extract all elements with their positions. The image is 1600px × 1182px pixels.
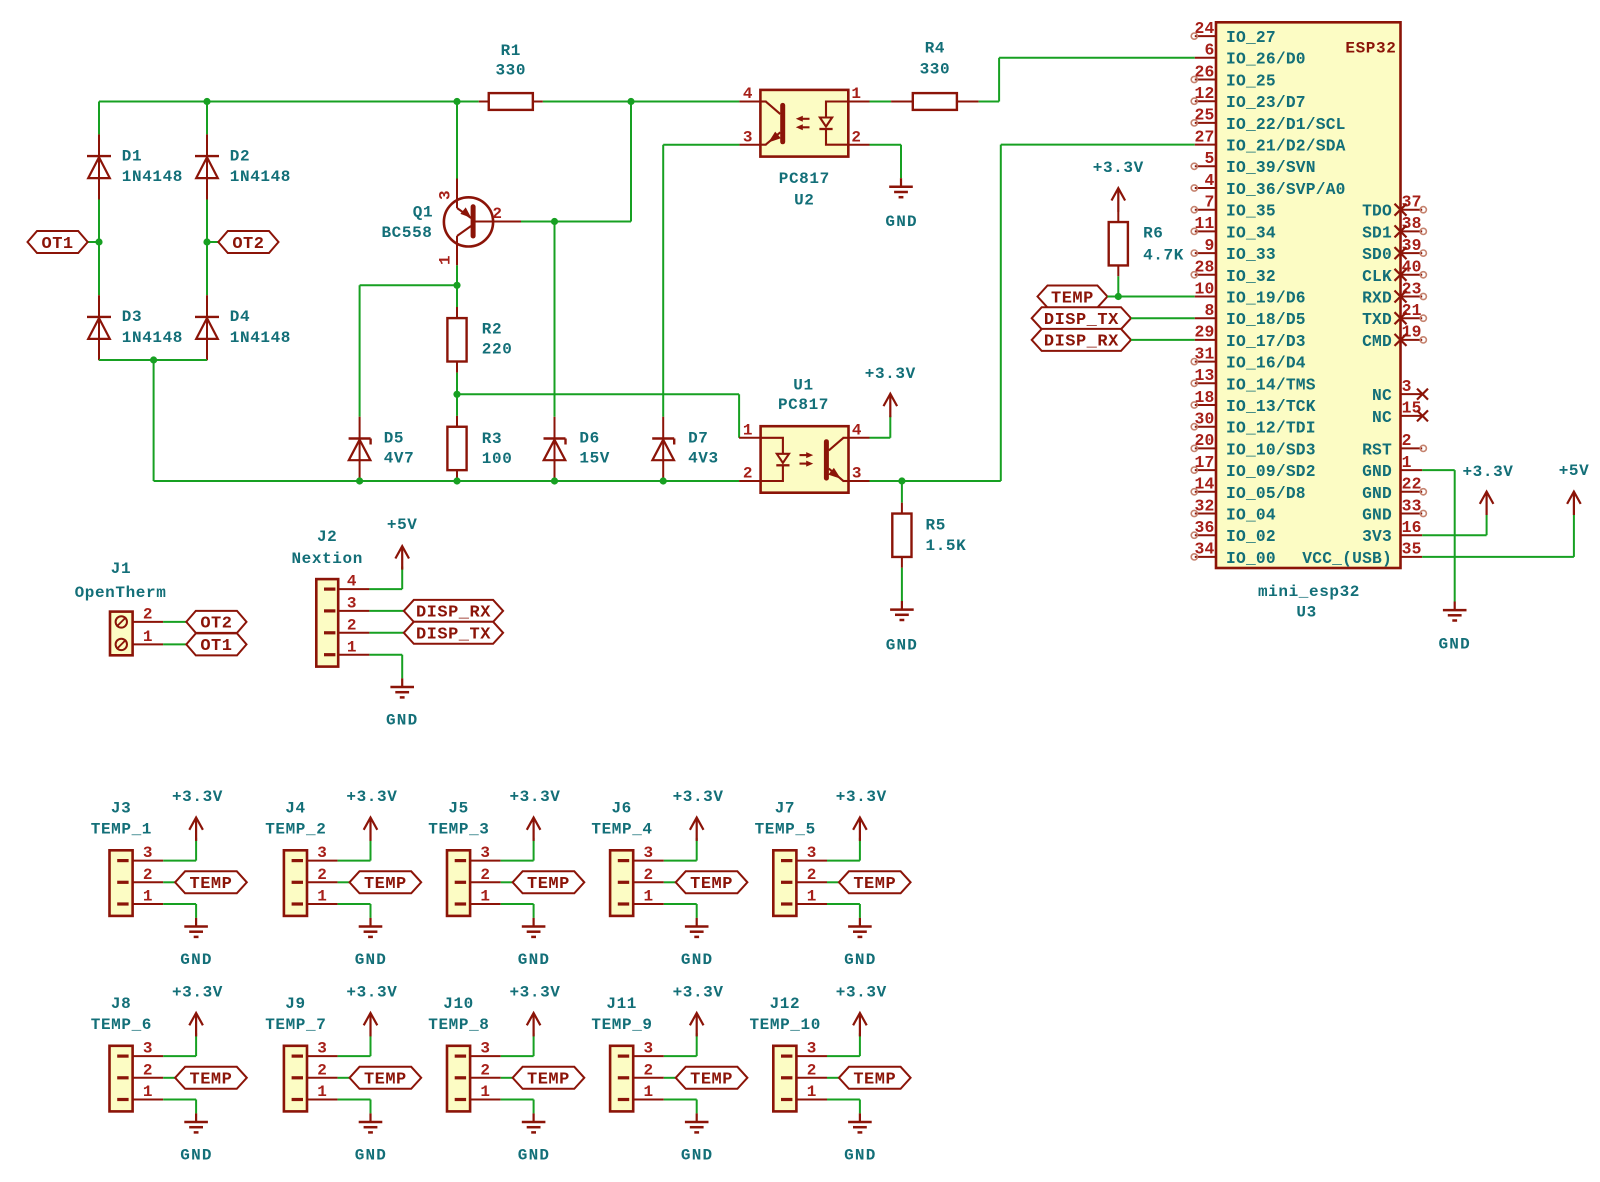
U2 internal light arrows (799, 118, 810, 120)
J8 pin contact 1 (117, 1098, 128, 1101)
svg-text:3: 3 (347, 595, 357, 613)
svg-text:2: 2 (143, 866, 153, 884)
pin 16 U3 3V3 (1401, 534, 1423, 536)
wire corner up to IO_26 row (998, 58, 1000, 102)
svg-text:TEMP_9: TEMP_9 (591, 1016, 652, 1034)
J11 pin contact 1 (618, 1098, 629, 1101)
svg-text:CMD: CMD (1362, 332, 1392, 351)
svg-text:IO_09/SD2: IO_09/SD2 (1226, 462, 1316, 481)
wire bridge bottom drop (153, 360, 155, 481)
svg-text:1: 1 (480, 1083, 490, 1101)
svg-text:TEMP_7: TEMP_7 (265, 1016, 326, 1034)
svg-text:SD0: SD0 (1362, 245, 1392, 264)
svg-text:1N4148: 1N4148 (230, 329, 291, 347)
svg-text:IO_33: IO_33 (1226, 245, 1276, 264)
svg-text:1: 1 (437, 255, 455, 265)
svg-text:TEMP: TEMP (190, 875, 233, 894)
pin 39 U3 SD0 (1401, 252, 1423, 254)
svg-text:2: 2 (807, 1061, 817, 1079)
power symbol +3.3V J4 (369, 818, 371, 841)
pin 10 U3 IO_19/D6 (1195, 296, 1216, 298)
pin 1 U2 (848, 101, 869, 103)
svg-text:DISP_RX: DISP_RX (1044, 333, 1119, 352)
svg-text:3: 3 (807, 1040, 817, 1058)
J6 pin contact 3 (618, 859, 629, 862)
svg-text:TEMP_8: TEMP_8 (428, 1016, 489, 1034)
power symbol +3.3V J3 (195, 818, 197, 841)
svg-text:+3.3V: +3.3V (509, 983, 560, 1001)
pin 1 J4 (307, 903, 338, 905)
svg-text:IO_04: IO_04 (1226, 505, 1276, 524)
svg-text:IO_25: IO_25 (1226, 71, 1276, 90)
svg-text:+3.3V: +3.3V (836, 983, 887, 1001)
J11 pin contact 2 (618, 1076, 629, 1079)
J12 pin contact 1 (781, 1098, 792, 1101)
ground symbol J3 GND (195, 918, 197, 927)
wire DISP_TX to ESP32 pin 8 (1131, 317, 1195, 319)
power symbol +3.3V U3 (1485, 492, 1487, 515)
svg-text:1: 1 (143, 888, 153, 906)
pin 3 J11 (633, 1055, 664, 1057)
wire D1-OT1-D3 column (98, 200, 100, 296)
wire J7 pin1 right (827, 903, 860, 905)
svg-text:D3: D3 (122, 308, 142, 326)
svg-text:1: 1 (807, 1083, 817, 1101)
pin 3 J6 (633, 860, 664, 862)
wire top net horizontal left (99, 101, 479, 103)
pin 32 U3 IO_04 (1195, 513, 1216, 515)
wire D2-OT2-D4 column (206, 200, 208, 296)
node junction OT1 (95, 238, 102, 245)
pin 1 J2 (338, 654, 369, 656)
J3 pin contact 3 (117, 859, 128, 862)
connector J3 body (110, 850, 133, 916)
wire J10 pin3 up (533, 1033, 535, 1056)
ground symbol J8 GND (195, 1113, 197, 1122)
svg-text:GND: GND (844, 1146, 876, 1164)
svg-text:2: 2 (317, 866, 327, 884)
wire J2 pin4 up to +5V (401, 567, 403, 590)
J12 pin contact 3 (781, 1055, 792, 1058)
pin 27 U3 IO_21/D2/SDA (1195, 144, 1216, 146)
wire J1 pin1 to OT1 (163, 643, 186, 645)
svg-text:4: 4 (347, 573, 357, 591)
wire corner up to IO_21 row (1000, 145, 1002, 481)
pin 23 U3 RXD (1401, 296, 1423, 298)
svg-text:+5V: +5V (387, 516, 418, 534)
svg-text:TEMP: TEMP (690, 1071, 733, 1090)
svg-text:+3.3V: +3.3V (673, 788, 724, 806)
svg-text:4V7: 4V7 (384, 450, 415, 468)
wire R3 top (456, 394, 458, 416)
wire J3 pin2 to TEMP (163, 881, 175, 883)
pin 1 J1 (133, 643, 164, 645)
svg-text:IO_02: IO_02 (1226, 527, 1276, 546)
pin 38 U3 SD1 (1401, 230, 1423, 232)
J7 pin contact 1 (781, 902, 792, 905)
svg-text:VCC_(USB): VCC_(USB) (1302, 549, 1392, 568)
svg-text:1: 1 (317, 1083, 327, 1101)
svg-text:GND: GND (355, 951, 387, 969)
wire J4 pin2 to TEMP (338, 881, 350, 883)
node junction D2 top (203, 98, 210, 105)
pin 14 U3 IO_05/D8 (1195, 491, 1216, 493)
svg-text:IO_12/TDI: IO_12/TDI (1226, 419, 1316, 438)
power symbol +3.3V J9 (369, 1013, 371, 1036)
J8 pin contact 3 (117, 1055, 128, 1058)
svg-text:10: 10 (1195, 279, 1215, 298)
net label OT1 (J1) (186, 633, 246, 655)
pin 4 U2 (739, 101, 760, 103)
pin 3 J4 (307, 860, 338, 862)
svg-text:R5: R5 (926, 517, 946, 535)
svg-text:19: 19 (1402, 323, 1422, 342)
connector J2 body (316, 579, 338, 667)
node junction bridge bottom (150, 356, 157, 363)
wire up to +3.3V at U1 (889, 416, 891, 438)
svg-text:3: 3 (143, 844, 153, 862)
svg-text:IO_36/SVP/A0: IO_36/SVP/A0 (1226, 180, 1346, 199)
svg-text:TEMP: TEMP (364, 1071, 407, 1090)
svg-text:1: 1 (143, 1083, 153, 1101)
svg-text:GND: GND (1362, 484, 1392, 503)
ground symbol U3 GND (1454, 602, 1456, 611)
J2 pin contact 4 (324, 588, 335, 591)
net label TEMP (J5) (513, 871, 585, 893)
svg-text:J9: J9 (285, 995, 305, 1013)
pin 3 J8 (133, 1055, 164, 1057)
wire 3V3 up (1486, 515, 1488, 535)
svg-text:IO_35: IO_35 (1226, 202, 1276, 221)
wire J2 pin4 right (369, 588, 402, 590)
pin 1 J9 (307, 1099, 338, 1101)
wire J11 pin2 to TEMP (664, 1077, 676, 1079)
pin 1 J8 (133, 1099, 164, 1101)
pin 1 U3 GND (1401, 469, 1423, 471)
wire Q1 emitter to node (456, 265, 458, 285)
optocoupler U1 PC817 body (761, 426, 849, 493)
net label DISP_TX (ESP32) (1032, 307, 1131, 329)
J5 pin contact 1 (455, 902, 466, 905)
svg-text:+3.3V: +3.3V (172, 788, 223, 806)
svg-text:R6: R6 (1143, 225, 1163, 243)
wire U1 pin4 right (870, 437, 891, 439)
ground symbol J4 GND (369, 918, 371, 927)
svg-text:TEMP_3: TEMP_3 (428, 820, 489, 838)
pin 1 J11 (633, 1099, 664, 1101)
wire D1 column upper (98, 102, 100, 135)
wire J11 pin1 down (696, 1100, 698, 1114)
pin 20 U3 IO_10/SD3 (1195, 447, 1216, 449)
U2 internal transistor (780, 105, 785, 141)
wire J7 pin3 right (827, 860, 860, 862)
pin 3 J10 (470, 1055, 501, 1057)
diode D4 symbol (206, 295, 208, 360)
wire J12 pin3 right (827, 1055, 860, 1057)
wire J9 pin3 right (338, 1055, 371, 1057)
svg-text:+3.3V: +3.3V (346, 983, 397, 1001)
svg-text:16: 16 (1402, 518, 1422, 537)
svg-text:GND: GND (885, 213, 917, 231)
ground symbol J10 GND (532, 1113, 534, 1122)
svg-text:+3.3V: +3.3V (865, 365, 916, 383)
wire J3 pin3 up (195, 838, 197, 861)
svg-text:27: 27 (1195, 127, 1215, 146)
wire J3 pin3 right (163, 860, 196, 862)
svg-text:IO_34: IO_34 (1226, 223, 1276, 242)
svg-text:TEMP: TEMP (690, 875, 733, 894)
resistor R6 body (1117, 211, 1119, 222)
pin 17 U3 IO_09/SD2 (1195, 469, 1216, 471)
U1 internal transistor (824, 442, 829, 478)
pin 11 U3 IO_34 (1195, 230, 1216, 232)
pin 34 U3 IO_00 (1195, 556, 1216, 558)
wire R6 bottom (1117, 276, 1119, 296)
svg-text:220: 220 (482, 341, 513, 359)
wire R4 to corner (979, 101, 1000, 103)
wire VCC pin35 right (1422, 556, 1574, 558)
wire J11 pin3 up (696, 1033, 698, 1056)
pin 8 U3 IO_18/D5 (1195, 317, 1216, 319)
svg-text:3: 3 (643, 844, 653, 862)
J1 screw terminal 1 (116, 639, 127, 650)
svg-text:2: 2 (347, 616, 357, 634)
ground symbol U2 GND (900, 178, 902, 187)
J6 pin contact 1 (618, 902, 629, 905)
svg-text:330: 330 (920, 60, 951, 78)
svg-text:D6: D6 (579, 429, 599, 447)
pin 3 J9 (307, 1055, 338, 1057)
svg-text:1: 1 (851, 85, 861, 103)
wire R5 top (901, 481, 903, 503)
wire Q1 collector (456, 102, 458, 179)
svg-text:39: 39 (1402, 236, 1422, 255)
wire J8 pin2 to TEMP (163, 1077, 175, 1079)
zener diode D7 symbol (662, 417, 664, 482)
wire U2 pin3 to D7 (662, 145, 664, 417)
svg-text:TEMP: TEMP (1051, 289, 1094, 308)
pin 4 J2 (338, 588, 369, 590)
J2 pin contact 1 (324, 653, 335, 656)
connector J4 body (284, 850, 307, 916)
svg-text:J8: J8 (111, 995, 131, 1013)
svg-text:35: 35 (1402, 540, 1422, 559)
wire J8 pin3 up (195, 1033, 197, 1056)
svg-text:D4: D4 (230, 308, 250, 326)
wire J11 pin1 right (664, 1099, 697, 1101)
power symbol +3.3V J10 (532, 1013, 534, 1036)
svg-text:IO_16/D4: IO_16/D4 (1226, 354, 1306, 373)
svg-text:R3: R3 (482, 430, 502, 448)
pin 4 U1 (849, 437, 870, 439)
svg-text:IO_22/D1/SCL: IO_22/D1/SCL (1226, 115, 1346, 134)
svg-text:R4: R4 (925, 39, 945, 57)
svg-text:J4: J4 (285, 799, 305, 817)
J9 pin contact 1 (292, 1098, 303, 1101)
J4 pin contact 2 (292, 881, 303, 884)
pin 18 U3 IO_13/TCK (1195, 404, 1216, 406)
svg-text:R2: R2 (482, 321, 502, 339)
wire J12 pin1 down (859, 1100, 861, 1114)
svg-text:GND: GND (355, 1146, 387, 1164)
connector J6 body (610, 850, 633, 916)
pin 40 U3 CLK (1401, 274, 1423, 276)
pin 1 J5 (470, 903, 501, 905)
U1 internal LED (761, 438, 783, 481)
pin 2 U2 (848, 144, 869, 146)
svg-text:NC: NC (1372, 386, 1392, 405)
pin 3 J12 (796, 1055, 827, 1057)
svg-text:PC817: PC817 (778, 396, 829, 414)
wire 3V3 pin16 right (1422, 534, 1486, 536)
net label OT2 (bridge) (218, 231, 278, 253)
wire TEMP to ESP32 pin 10 (1107, 296, 1194, 298)
power symbol +3.3V J12 (859, 1013, 861, 1036)
connector J11 body (610, 1046, 633, 1112)
pin 25 U3 IO_22/D1/SCL (1195, 122, 1216, 124)
svg-text:1: 1 (643, 888, 653, 906)
ground symbol J11 GND (696, 1113, 698, 1122)
resistor R5 body (901, 503, 903, 514)
wire top net horizontal right of R1 (543, 101, 740, 103)
wire to ESP32 pin 27 (1001, 144, 1195, 146)
svg-text:TEMP_4: TEMP_4 (591, 820, 652, 838)
pin 2 J2 (338, 632, 369, 634)
svg-text:1N4148: 1N4148 (122, 329, 183, 347)
power symbol +3.3V J8 (195, 1013, 197, 1036)
svg-text:3: 3 (437, 190, 455, 200)
svg-text:1: 1 (143, 628, 153, 646)
svg-text:5: 5 (1205, 149, 1215, 168)
svg-text:1: 1 (317, 888, 327, 906)
svg-text:2: 2 (143, 1061, 153, 1079)
connector J12 body (773, 1046, 796, 1112)
svg-text:2: 2 (743, 465, 753, 483)
pin 2 J11 (633, 1077, 664, 1079)
J7 pin contact 2 (781, 881, 792, 884)
pin 1 J12 (796, 1099, 827, 1101)
wire J10 pin1 down (533, 1100, 535, 1114)
net label TEMP (J6) (676, 871, 748, 893)
svg-text:GND: GND (844, 951, 876, 969)
pin 7 U3 IO_35 (1195, 209, 1216, 211)
svg-text:TEMP: TEMP (364, 875, 407, 894)
pin 3 J7 (796, 860, 827, 862)
svg-text:BC558: BC558 (381, 224, 432, 242)
wire J9 pin1 right (338, 1099, 371, 1101)
svg-text:TEMP_5: TEMP_5 (755, 820, 816, 838)
svg-text:22: 22 (1402, 475, 1422, 494)
wire R2 top (456, 285, 458, 307)
net label TEMP (J11) (676, 1067, 748, 1089)
svg-text:IO_17/D3: IO_17/D3 (1226, 332, 1306, 351)
pin 1 U1 (739, 437, 761, 439)
svg-text:IO_14/TMS: IO_14/TMS (1226, 375, 1316, 394)
wire bottom net horizontal (154, 480, 740, 482)
wire node A horizontal (360, 284, 457, 286)
wire to ESP32 pin 6 (999, 57, 1195, 59)
ground symbol J7 GND (859, 918, 861, 927)
pin 21 U3 TXD (1401, 317, 1423, 319)
node junction R6 TEMP (1115, 293, 1122, 300)
svg-text:3V3: 3V3 (1362, 527, 1392, 546)
pin 1 J10 (470, 1099, 501, 1101)
wire J4 pin3 up (370, 838, 372, 861)
svg-text:D5: D5 (384, 429, 404, 447)
wire drop to U1 pin1 (738, 394, 740, 438)
wire J7 pin2 to TEMP (827, 881, 839, 883)
svg-text:RST: RST (1362, 440, 1392, 459)
wire R2 bottom (456, 373, 458, 395)
svg-text:29: 29 (1195, 323, 1215, 342)
wire J6 pin1 right (664, 903, 697, 905)
svg-text:DISP_TX: DISP_TX (1044, 311, 1119, 330)
net label TEMP (ESP32) (1038, 286, 1108, 308)
wire J2 pin3 to DISP_RX (369, 610, 403, 612)
svg-text:+3.3V: +3.3V (346, 788, 397, 806)
pin 26 U3 IO_25 (1195, 79, 1216, 81)
svg-text:4: 4 (743, 85, 753, 103)
wire J4 pin3 right (338, 860, 371, 862)
wire J3 pin1 right (163, 903, 196, 905)
svg-text:J2: J2 (317, 528, 337, 546)
wire J12 pin1 right (827, 1099, 860, 1101)
svg-text:TEMP_6: TEMP_6 (91, 1016, 152, 1034)
pin 3 J3 (133, 860, 164, 862)
svg-text:IO_27: IO_27 (1226, 28, 1276, 47)
connector J8 body (110, 1046, 133, 1112)
net label OT1 (bridge) (28, 231, 88, 253)
net label TEMP (J8) (175, 1067, 247, 1089)
wire J12 pin3 up (859, 1033, 861, 1056)
svg-text:37: 37 (1402, 192, 1422, 211)
svg-text:3: 3 (480, 844, 490, 862)
zener diode D6 symbol (554, 417, 556, 482)
J4 pin contact 1 (292, 902, 303, 905)
svg-text:+3.3V: +3.3V (673, 983, 724, 1001)
wire U2 pin1 to R4 (870, 101, 892, 103)
ground symbol R5 GND (901, 601, 903, 610)
svg-text:2: 2 (643, 866, 653, 884)
ground symbol J5 GND (532, 918, 534, 927)
J11 pin contact 3 (618, 1055, 629, 1058)
svg-text:2: 2 (492, 205, 502, 223)
power symbol +3.3V J5 (532, 818, 534, 841)
svg-text:Q1: Q1 (413, 203, 433, 221)
svg-text:GND: GND (518, 951, 550, 969)
svg-text:TEMP_10: TEMP_10 (749, 1016, 820, 1034)
net label DISP_RX (J2) (404, 600, 503, 622)
svg-text:9: 9 (1205, 236, 1215, 255)
svg-text:GND: GND (886, 637, 918, 655)
wire J6 pin2 to TEMP (664, 881, 676, 883)
svg-text:3: 3 (317, 844, 327, 862)
pin 2 J8 (133, 1077, 164, 1079)
svg-text:J3: J3 (111, 799, 131, 817)
diode D3 symbol (98, 295, 100, 360)
wire U2 pin2 to ground (870, 144, 902, 146)
J5 pin contact 3 (455, 859, 466, 862)
pin 2 J1 (133, 621, 164, 623)
wire mid row to U1 pin1 (457, 393, 739, 395)
J6 pin contact 2 (618, 881, 629, 884)
svg-text:GND: GND (180, 951, 212, 969)
wire J2 pin1 right (369, 654, 402, 656)
wire J5 pin1 down (533, 904, 535, 918)
wire U1 pin3 to corner (870, 480, 1001, 482)
svg-text:D2: D2 (230, 147, 250, 165)
wire J10 pin1 right (501, 1099, 534, 1101)
